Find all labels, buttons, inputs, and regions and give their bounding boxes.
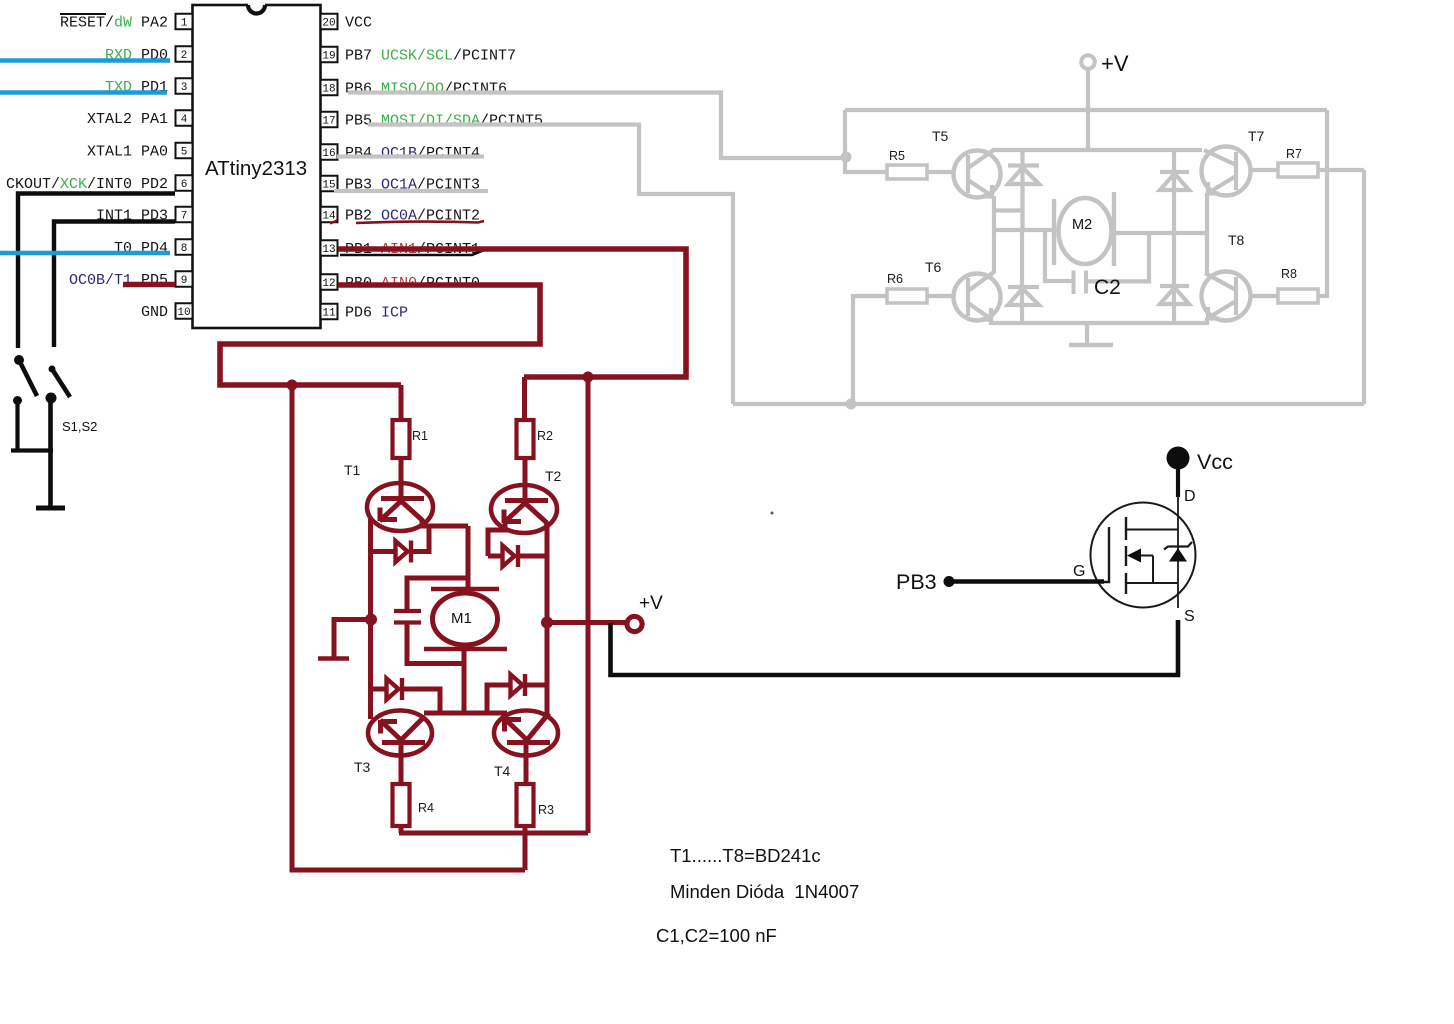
diode D6 cathode bar xyxy=(1008,285,1039,289)
svg-text:T4: T4 xyxy=(494,763,511,779)
capacitor C2 plates xyxy=(1074,271,1087,295)
switch S1 blade xyxy=(19,360,37,396)
wire M1 top vertical xyxy=(466,526,471,589)
IC U1 ATtiny2313 body xyxy=(193,3,321,329)
transistor T2 collector diagonal xyxy=(525,503,547,525)
switch S2 hinge dot xyxy=(49,366,56,373)
diode D2 cathode bar xyxy=(516,545,520,567)
junction dot pin12 rail xyxy=(287,380,298,391)
mosfet Q1 body circle xyxy=(1091,503,1196,608)
svg-text:19: 19 xyxy=(322,50,335,62)
svg-text:R5: R5 xyxy=(889,149,905,163)
wire pin6 PD2 to switch S1 xyxy=(18,194,175,349)
pin 2 box xyxy=(176,46,193,62)
junction dot grey bottom left xyxy=(846,399,857,410)
transistor T5 emitter diagonal arrow xyxy=(968,180,992,197)
mosfet Q1 channel dashes xyxy=(1125,517,1127,594)
diode D5 cathode bar xyxy=(1008,163,1039,167)
svg-text:ATtiny2313: ATtiny2313 xyxy=(205,157,307,180)
ground bar grey bridge xyxy=(1069,343,1113,347)
pin 9 box xyxy=(176,271,193,287)
svg-text:T8: T8 xyxy=(1228,232,1245,248)
pin 1 label RESET/dW PA2 xyxy=(60,14,168,32)
pin 20 box xyxy=(321,14,338,30)
pin 6 box xyxy=(176,175,193,191)
motor M1 bottom bar xyxy=(424,647,507,652)
wire R7 R8 tie vertical xyxy=(1325,110,1329,296)
svg-text:R3: R3 xyxy=(538,803,554,817)
switch S1 hinge dot xyxy=(14,355,24,365)
svg-text:18: 18 xyxy=(322,83,335,95)
diode D5 triangle xyxy=(1008,168,1039,185)
transistor T5 base bar xyxy=(966,155,970,193)
transistor T1 body xyxy=(367,483,433,531)
wire S2 terminal down to ground xyxy=(48,398,53,507)
pin 3 box xyxy=(176,78,193,94)
wire R8 to tie vertical xyxy=(1318,294,1329,298)
resistor R2 lead top xyxy=(522,377,527,420)
capacitor C1 bottom wire xyxy=(407,622,464,664)
svg-text:15: 15 xyxy=(322,179,335,191)
resistor R3 xyxy=(517,784,534,826)
diode D4 cathode bar xyxy=(523,674,527,696)
ground bar below switches xyxy=(36,506,65,511)
mosfet Q1 substrate arrow xyxy=(1127,549,1153,584)
svg-text:16: 16 xyxy=(322,148,335,160)
wire plusV down grey xyxy=(1086,70,1090,150)
resistor R1 lead bottom xyxy=(399,458,404,500)
wire PB3 to gate xyxy=(949,579,1104,584)
svg-text:12: 12 xyxy=(322,278,335,290)
diode D5 line xyxy=(1020,150,1024,230)
switch S2 blade xyxy=(52,369,70,397)
motor M2 right bar xyxy=(1112,192,1116,266)
node Vcc terminal dot xyxy=(1167,447,1190,470)
wire pin14 maroon tick xyxy=(330,221,337,224)
resistor R8 xyxy=(1278,289,1318,303)
wire black plusV to mosfet source xyxy=(611,620,1179,675)
svg-text:R2: R2 xyxy=(537,429,553,443)
wire grey bottom bus xyxy=(733,402,1364,406)
diode D2 xyxy=(503,546,515,567)
pin 5 box xyxy=(176,143,193,159)
svg-text:XTAL1 PA0: XTAL1 PA0 xyxy=(87,144,168,161)
wire R7 to far right xyxy=(1318,168,1364,172)
svg-text:11: 11 xyxy=(322,307,336,319)
svg-text:XTAL2 PA1: XTAL2 PA1 xyxy=(87,111,168,128)
pin 1 box xyxy=(176,14,193,30)
svg-text:R4: R4 xyxy=(418,801,434,815)
wire to plusV terminal xyxy=(547,620,626,625)
wire bottom rail R4 R3 xyxy=(399,826,404,833)
diode D7 line xyxy=(1172,150,1176,233)
wire Vcc stub thick xyxy=(1176,466,1180,497)
switch S2 lower terminal dot xyxy=(46,393,57,404)
wire PB1 bus down right xyxy=(586,377,591,833)
wire grey left vertical to R5 xyxy=(845,110,887,172)
diode D2 wire xyxy=(488,554,547,559)
transistor T3 emitter diagonal arrow xyxy=(380,720,401,740)
junction dot pin13 rail xyxy=(583,372,594,383)
transistor T2 emitter diagonal arrow xyxy=(504,503,526,523)
svg-text:9: 9 xyxy=(181,275,188,287)
node PB3 terminal dot xyxy=(944,576,955,587)
resistor R4 xyxy=(393,784,410,826)
wire pin15 grey underline xyxy=(334,189,488,193)
wire pin13 PB1 to R2 rail xyxy=(338,249,686,377)
wire pin13 black underline xyxy=(340,250,505,255)
svg-text:+V: +V xyxy=(1101,51,1129,76)
svg-text:CKOUT/XCK/INT0 PD2: CKOUT/XCK/INT0 PD2 xyxy=(6,176,168,193)
svg-text:7: 7 xyxy=(181,210,188,222)
svg-text:10: 10 xyxy=(177,307,190,319)
capacitor C1 top wire xyxy=(407,578,468,611)
resistor R7 xyxy=(1278,163,1318,177)
pin 16 box xyxy=(321,144,338,160)
diode D8 triangle xyxy=(1160,288,1189,305)
svg-text:20: 20 xyxy=(322,17,335,29)
wire grey top bus xyxy=(845,108,1327,112)
mosfet Q1 body diode zener bar xyxy=(1164,542,1192,550)
diode D6 line xyxy=(1020,230,1024,323)
wire TXD blue pin3 xyxy=(0,90,167,95)
diode D4 wire xyxy=(487,685,547,713)
svg-text:RESET/dW PA2: RESET/dW PA2 xyxy=(60,15,168,32)
svg-text:G: G xyxy=(1073,563,1085,580)
svg-text:R8: R8 xyxy=(1281,267,1297,281)
wire ground branch xyxy=(334,620,371,658)
resistor R1 xyxy=(393,420,410,458)
wire R6 left vertical xyxy=(853,296,887,404)
wire T5 collector rail xyxy=(994,148,1202,152)
svg-text:S1,S2: S1,S2 xyxy=(62,419,97,434)
resistor R2 xyxy=(517,420,534,458)
svg-text:PB4 OC1B/PCINT4: PB4 OC1B/PCINT4 xyxy=(345,145,480,162)
transistor T3 lead down xyxy=(399,743,404,785)
svg-text:T1......T8=BD241c: T1......T8=BD241c xyxy=(670,845,821,866)
wire grey ground stem xyxy=(1085,323,1089,343)
diode D1 wire xyxy=(371,527,430,552)
wire pin9 OC0B stub maroon xyxy=(123,282,175,288)
diode D3 cathode bar xyxy=(400,678,404,700)
pin 13 box xyxy=(321,240,338,256)
svg-text:R7: R7 xyxy=(1286,147,1302,161)
wire midpoint left to M2 xyxy=(994,228,1053,232)
transistor T7 base bar xyxy=(1234,152,1238,190)
diode D8 line xyxy=(1172,233,1176,323)
mosfet Q1 drain connection xyxy=(1126,529,1178,531)
transistor T8 body xyxy=(1202,272,1251,321)
wire T2 output down xyxy=(488,523,505,556)
transistor T8 base bar xyxy=(1234,277,1238,315)
pin 7 box xyxy=(176,207,193,223)
svg-text:3: 3 xyxy=(181,82,188,94)
mosfet Q1 drain line xyxy=(1177,495,1179,608)
transistor T6 body xyxy=(954,274,1001,321)
wire grey bottom rail xyxy=(991,321,1207,325)
svg-text:1: 1 xyxy=(181,17,188,29)
junction dot left bus ground xyxy=(365,614,377,626)
ground bar red bridge xyxy=(318,656,349,661)
diode D1 xyxy=(396,541,408,562)
pin 17 box xyxy=(321,112,338,128)
wire pin17 PB5 to grey bridge bottom bus xyxy=(368,125,733,405)
wire pin18 PB6 to grey bridge node xyxy=(348,93,846,159)
pin 8 box xyxy=(176,239,193,255)
transistor T2 base bar xyxy=(505,498,548,503)
svg-text:GND: GND xyxy=(141,304,168,321)
diode D3 xyxy=(387,679,399,700)
wire pin14 maroon underline xyxy=(356,221,484,223)
transistor T4 lead down xyxy=(524,743,529,785)
svg-text:Vcc: Vcc xyxy=(1197,450,1233,474)
wire RXD blue pin2 xyxy=(0,58,170,63)
diode D1 cathode bar xyxy=(409,541,413,563)
motor M1 body xyxy=(433,593,498,645)
svg-text:C2: C2 xyxy=(1094,276,1121,299)
svg-text:VCC: VCC xyxy=(345,15,372,32)
plusV terminal circle red bridge xyxy=(627,616,642,631)
pin 11 box xyxy=(321,304,338,320)
svg-text:R1: R1 xyxy=(412,429,428,443)
motor M1 top bar xyxy=(431,587,499,592)
motor M2 left bar xyxy=(1052,199,1056,265)
wire T7 emitter to T8 collector xyxy=(1205,193,1209,273)
capacitor C2 right wire xyxy=(1086,233,1149,281)
wire switch join horizontal xyxy=(11,448,53,452)
wire pin12 PB0 to R1 rail xyxy=(220,285,540,385)
wire pin7 PD3 to switch S2 xyxy=(54,222,175,348)
svg-text:4: 4 xyxy=(181,114,188,126)
svg-text:S: S xyxy=(1184,608,1195,625)
junction dot grey left top xyxy=(841,152,852,163)
plusV terminal circle grey bridge xyxy=(1081,55,1095,69)
wire left bus T1 to T3 xyxy=(368,519,373,719)
svg-text:17: 17 xyxy=(322,115,335,127)
wire S1 terminal down xyxy=(15,400,19,450)
transistor T8 emitter diagonal arrow xyxy=(1208,301,1236,319)
junction dot right bus plusV xyxy=(541,617,553,629)
wire T6 emitter to bottom rail xyxy=(989,319,993,325)
mosfet Q1 source connection xyxy=(1126,582,1178,584)
diode D7 cathode bar xyxy=(1160,170,1189,174)
wire left outer bus down xyxy=(292,385,525,870)
svg-text:13: 13 xyxy=(322,244,335,256)
svg-text:D: D xyxy=(1184,488,1196,505)
svg-text:T3: T3 xyxy=(354,759,371,775)
diode D4 xyxy=(511,675,523,696)
transistor T3 base bar xyxy=(382,740,425,745)
svg-text:R6: R6 xyxy=(887,272,903,286)
diode D6 triangle xyxy=(1008,289,1039,306)
wire R5 to T5 base xyxy=(927,170,954,174)
wire T8 base to R8 xyxy=(1251,294,1278,298)
svg-text:M1: M1 xyxy=(451,610,472,627)
pin 12 box xyxy=(321,274,338,290)
svg-text:Minden Dióda 1N4007: Minden Dióda 1N4007 xyxy=(670,881,859,902)
wire T0 blue pin8 xyxy=(0,251,170,256)
resistor R5 xyxy=(887,165,927,179)
transistor T2 body xyxy=(491,485,557,533)
transistor T6 collector diagonal xyxy=(968,272,994,291)
wire pin16 grey underline xyxy=(337,154,484,158)
transistor T6 emitter diagonal arrow xyxy=(968,303,991,320)
svg-text:5: 5 xyxy=(181,146,188,158)
transistor T1 collector diagonal xyxy=(401,501,422,526)
wire T5 emitter to T6 collector xyxy=(992,196,996,273)
transistor T4 body xyxy=(494,711,558,756)
diode D8 cathode bar xyxy=(1160,284,1189,288)
pin 14 box xyxy=(321,207,338,223)
motor M2 body xyxy=(1059,198,1112,264)
resistor R2 lead bottom xyxy=(523,458,528,502)
diode D3 wire xyxy=(371,689,441,713)
diode D7 triangle xyxy=(1160,174,1189,191)
transistor T4 emitter diagonal arrow xyxy=(504,718,527,740)
wire T7 base to R7 xyxy=(1251,168,1278,172)
switch S1 lower terminal dot xyxy=(13,396,22,405)
resistor R6 xyxy=(887,289,927,303)
wire T1 output to M1 top xyxy=(420,524,468,529)
pin 19 box xyxy=(321,47,338,63)
svg-text:6: 6 xyxy=(181,179,188,191)
mosfet Q1 body diode xyxy=(1169,548,1187,562)
transistor T1 base bar xyxy=(381,496,424,501)
transistor T3 collector diagonal xyxy=(401,717,424,740)
capacitor C2 left wire xyxy=(1045,231,1074,281)
pin 15 box xyxy=(321,176,338,192)
transistor T3 body xyxy=(368,711,432,756)
svg-text:T1: T1 xyxy=(344,462,361,478)
wire R6 to T6 base xyxy=(927,294,954,298)
svg-text:C1,C2=100 nF: C1,C2=100 nF xyxy=(656,925,777,946)
svg-text:8: 8 xyxy=(181,243,188,255)
transistor T7 collector diagonal xyxy=(1204,150,1236,165)
svg-text:PB6 MISO/DO/PCINT6: PB6 MISO/DO/PCINT6 xyxy=(345,81,507,98)
svg-text:+V: +V xyxy=(639,593,663,614)
svg-text:PB5 MOSI/DI/SDA/PCINT5: PB5 MOSI/DI/SDA/PCINT5 xyxy=(345,113,543,130)
svg-text:PD6 ICP: PD6 ICP xyxy=(345,305,408,322)
pin 4 box xyxy=(176,110,193,126)
resistor R1 lead top xyxy=(399,385,404,420)
wire T8 emitter to bottom rail xyxy=(1205,318,1209,325)
pin 18 box xyxy=(321,80,338,96)
wire M1 bottom vertical xyxy=(462,649,467,716)
svg-text:T2: T2 xyxy=(545,468,562,484)
mosfet Q1 gate bar xyxy=(1103,527,1109,582)
wire far right vertical xyxy=(1362,170,1366,404)
svg-text:T7: T7 xyxy=(1248,128,1265,144)
transistor T5 body xyxy=(954,151,1001,198)
svg-text:PB3: PB3 xyxy=(896,570,937,594)
wire midpoint right to T7 T8 xyxy=(1114,231,1207,235)
transistor T6 base bar xyxy=(966,278,970,316)
wire R3 T4 column to bottom bus xyxy=(523,826,528,870)
transistor T4 collector diagonal xyxy=(527,713,549,740)
svg-text:2: 2 xyxy=(181,50,188,62)
transistor T4 base bar xyxy=(507,740,550,745)
transistor T7 emitter diagonal arrow xyxy=(1208,176,1236,194)
transistor T5 collector diagonal xyxy=(968,149,995,168)
pin 10 box xyxy=(176,303,193,319)
svg-text:T6: T6 xyxy=(925,259,942,275)
transistor T8 collector diagonal xyxy=(1205,273,1236,290)
stray dot artifact xyxy=(771,512,774,515)
transistor T1 emitter diagonal arrow xyxy=(380,501,402,521)
svg-text:T5: T5 xyxy=(932,128,949,144)
svg-text:PB7 UCSK/SCL/PCINT7: PB7 UCSK/SCL/PCINT7 xyxy=(345,48,516,65)
transistor T7 body xyxy=(1202,147,1251,196)
capacitor C1 plates xyxy=(394,611,421,623)
wire right bus T2 to T4 xyxy=(545,525,550,714)
wire T3 T4 collector rail xyxy=(424,711,507,716)
svg-text:M2: M2 xyxy=(1072,217,1092,233)
